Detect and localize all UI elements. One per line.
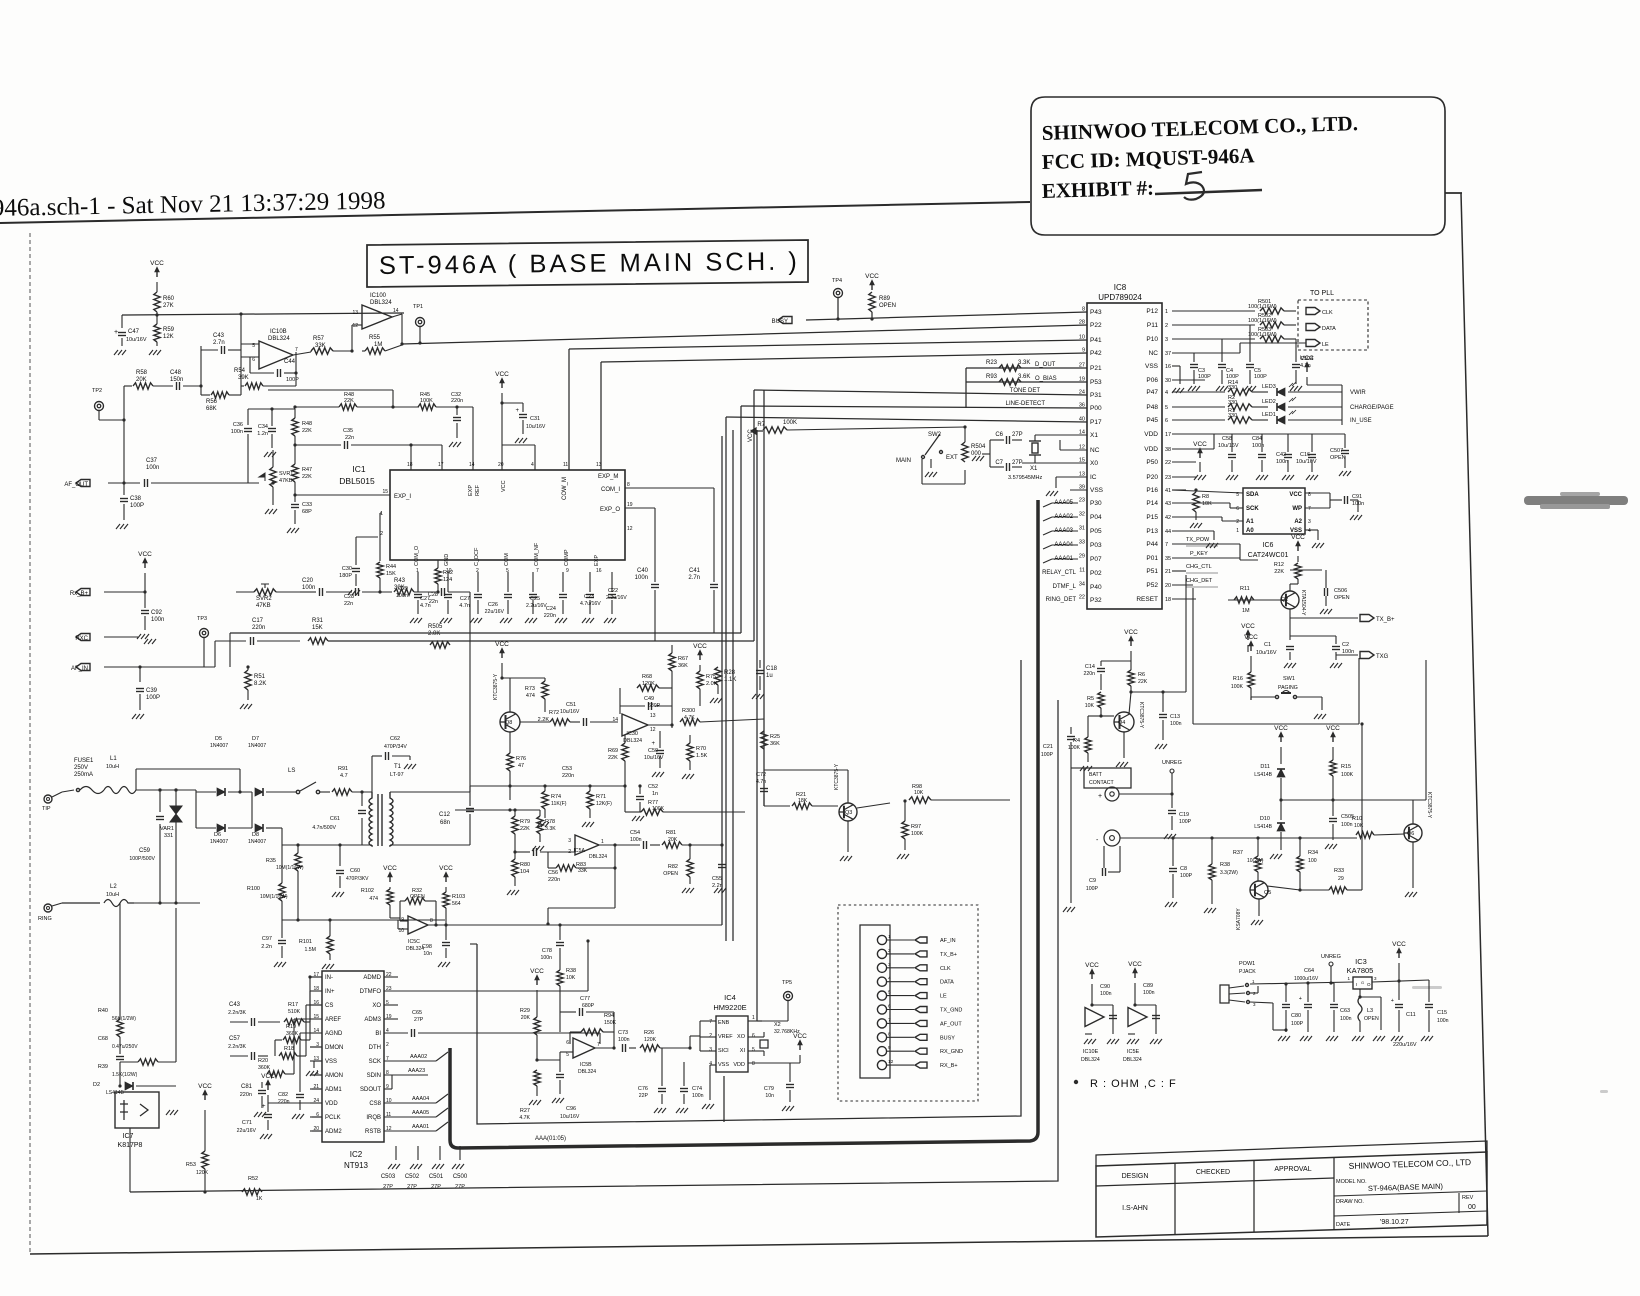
- svg-text:RX_B+: RX_B+: [940, 1063, 958, 1069]
- svg-text:C24: C24: [546, 606, 556, 612]
- svg-text:C64: C64: [1304, 968, 1314, 974]
- IC1 box: [390, 470, 625, 560]
- varistor VAR1 331: [170, 806, 182, 822]
- svg-text:C17: C17: [252, 618, 264, 624]
- svg-text:C56: C56: [548, 870, 558, 876]
- svg-text:OPEN: OPEN: [1364, 1016, 1379, 1022]
- svg-text:R26: R26: [644, 1030, 654, 1036]
- svg-text:R10: R10: [1352, 816, 1362, 822]
- svg-text:2.2u/16V: 2.2u/16V: [606, 595, 627, 601]
- svg-text:RESET: RESET: [1136, 596, 1158, 603]
- svg-text:VCC: VCC: [1300, 355, 1314, 362]
- svg-text:4.7n: 4.7n: [459, 603, 470, 609]
- svg-text:DATA: DATA: [1322, 326, 1336, 332]
- svg-text:+: +: [1391, 998, 1394, 1004]
- svg-text:2.2u/16V: 2.2u/16V: [526, 603, 547, 609]
- svg-text:1: 1: [1236, 528, 1239, 534]
- svg-text:10(2W): 10(2W): [1247, 858, 1264, 864]
- svg-text:P48: P48: [1146, 404, 1158, 411]
- svg-text:13: 13: [352, 310, 358, 316]
- svg-text:3.3K: 3.3K: [1018, 360, 1030, 366]
- wire net 925 to C78: [559, 925, 561, 940]
- svg-text:VCC: VCC: [1124, 629, 1138, 636]
- svg-text:680P: 680P: [582, 1003, 595, 1009]
- svg-text:A2: A2: [1294, 519, 1302, 525]
- svg-text:+: +: [515, 408, 519, 414]
- svg-text:C38: C38: [130, 496, 142, 502]
- svg-text:12K: 12K: [163, 334, 174, 340]
- wire C6/C7 left join: [989, 440, 991, 467]
- svg-text:15: 15: [1079, 458, 1085, 464]
- svg-text:COM_NF: COM_NF: [534, 542, 540, 566]
- svg-text:100n: 100n: [540, 955, 552, 961]
- svg-text:31: 31: [1079, 526, 1085, 532]
- wire Q3 emitter: [847, 821, 849, 852]
- test point TP3: [200, 629, 209, 638]
- connector arrow BUSY: [778, 317, 792, 324]
- capacitor C98 10n: [445, 925, 447, 940]
- svg-text:33K: 33K: [315, 343, 326, 349]
- svg-text:C44: C44: [284, 359, 296, 365]
- capacitor C44 100P: [249, 357, 251, 373]
- wire Q3 to R98: [857, 803, 890, 808]
- svg-text:Q6: Q6: [1407, 831, 1414, 837]
- wire Q4 emitter: [1123, 732, 1125, 758]
- svg-text:COM: COM: [504, 553, 510, 566]
- svg-text:4.7n: 4.7n: [756, 779, 766, 785]
- wire ENB left: [700, 1020, 716, 1022]
- svg-text:10n: 10n: [765, 1093, 774, 1099]
- svg-text:R78: R78: [545, 819, 555, 825]
- svg-text:FUSE1: FUSE1: [74, 758, 94, 764]
- svg-text:RELAY_CTL: RELAY_CTL: [1042, 570, 1077, 576]
- capacitor C79 10n: [789, 1063, 791, 1082]
- IC8 box: [1087, 303, 1162, 609]
- svg-text:68P: 68P: [302, 509, 312, 515]
- resistor R60 27K: [156, 282, 158, 292]
- svg-text:VCC: VCC: [865, 273, 879, 280]
- svg-text:100n: 100n: [231, 429, 243, 435]
- svg-text:R69: R69: [608, 748, 618, 754]
- scan noise streak right: [1524, 492, 1628, 509]
- svg-text:ST-946A ( BASE MAIN SCH. ): ST-946A ( BASE MAIN SCH. ): [379, 248, 800, 280]
- capacitor C92 100n: [144, 592, 146, 608]
- svg-text:R76: R76: [516, 756, 526, 762]
- svg-text:OPEN: OPEN: [879, 303, 896, 309]
- svg-text:3: 3: [568, 838, 571, 844]
- svg-text:5: 5: [888, 990, 891, 996]
- svg-text:2: 2: [888, 948, 891, 954]
- resistor R59 12K: [154, 324, 160, 342]
- svg-text:X1: X1: [1090, 432, 1098, 439]
- svg-text:NT913: NT913: [344, 1161, 369, 1170]
- svg-text:18: 18: [1165, 597, 1171, 603]
- svg-text:LE: LE: [940, 994, 947, 1000]
- wire Q2 emitter TX_B+: [1289, 609, 1291, 618]
- svg-text:R17: R17: [288, 1002, 298, 1008]
- resistor R57 33K: [311, 348, 333, 354]
- connector arrow TXG: [1360, 652, 1374, 659]
- svg-text:R59: R59: [163, 327, 175, 333]
- svg-text:C500: C500: [453, 1174, 468, 1180]
- resistor R503 100(1/16W): [1172, 338, 1255, 340]
- capacitor C49 680P: [648, 702, 650, 710]
- wire P14 to SCK: [1172, 502, 1230, 504]
- svg-text:P05: P05: [1090, 528, 1102, 535]
- wire pjack to rail: [1250, 982, 1353, 984]
- svg-text:250V: 250V: [74, 765, 88, 771]
- transformer T1 secondary: [390, 792, 393, 846]
- capacitor C501 27P: [439, 1146, 441, 1160]
- svg-text:330: 330: [1228, 413, 1237, 419]
- svg-text:100n: 100n: [1437, 1018, 1449, 1024]
- potentiometer SVR2 47KB: [254, 589, 276, 595]
- wire top rail y315: [122, 313, 404, 315]
- FCC exhibit handwritten 5: [1184, 172, 1204, 200]
- IC4 pin1 wire: [748, 1020, 762, 1022]
- wire DMON stub: [310, 1046, 322, 1048]
- svg-text:C27: C27: [420, 596, 430, 602]
- legend R:OHM C:F: [1074, 1080, 1078, 1084]
- svg-text:IC4: IC4: [724, 993, 736, 1002]
- svg-text:R18: R18: [284, 1046, 294, 1052]
- svg-text:EXP: EXP: [468, 485, 474, 496]
- svg-text:TP2: TP2: [92, 388, 102, 394]
- titleblock col2: [1253, 1160, 1255, 1232]
- svg-text:100n: 100n: [1170, 721, 1182, 727]
- resistor R48 22K top: [295, 406, 339, 408]
- wire ADM1 stub: [312, 1088, 322, 1090]
- svg-text:10: 10: [1079, 335, 1085, 341]
- svg-text:C63: C63: [1340, 1008, 1350, 1014]
- svg-text:R15: R15: [1341, 764, 1351, 770]
- connector arrow LE: [1306, 340, 1320, 347]
- svg-text:22K: 22K: [344, 398, 354, 404]
- svg-text:1.2n: 1.2n: [257, 431, 268, 437]
- bridge verticals: [195, 792, 197, 828]
- svg-text:IC5E: IC5E: [1127, 1049, 1140, 1055]
- svg-text:R56: R56: [206, 399, 218, 405]
- svg-text:22K: 22K: [302, 474, 312, 480]
- svg-text:R29: R29: [520, 1008, 530, 1014]
- svg-text:12: 12: [888, 1059, 894, 1065]
- wire crystal to X0 pin: [1034, 455, 1036, 463]
- svg-text:C81: C81: [241, 1084, 253, 1090]
- svg-text:220n: 220n: [1083, 671, 1095, 677]
- wire P06 stub: [1172, 379, 1205, 381]
- ground SW2: [925, 472, 929, 477]
- svg-text:P14: P14: [1146, 500, 1158, 507]
- svg-text:C41: C41: [689, 568, 701, 574]
- svg-text:R8: R8: [1202, 494, 1209, 500]
- svg-text:C49: C49: [644, 696, 654, 702]
- wire Q3 collector up: [847, 770, 849, 803]
- svg-text:RXC: RXC: [75, 636, 88, 642]
- svg-text:18K: 18K: [798, 798, 808, 804]
- svg-text:22K: 22K: [1138, 679, 1148, 685]
- svg-text:C47: C47: [128, 329, 140, 335]
- svg-text:SVR2: SVR2: [256, 596, 272, 602]
- connector pin 4 net DATA: [877, 977, 886, 986]
- svg-text:KTA1504-Y: KTA1504-Y: [1300, 590, 1306, 616]
- connector arrow DATA: [1306, 324, 1320, 331]
- svg-text:100: 100: [1308, 858, 1317, 864]
- svg-text:R42: R42: [443, 570, 453, 576]
- svg-text:23: 23: [1079, 498, 1085, 504]
- svg-text:100n: 100n: [1341, 822, 1353, 828]
- svg-text:AAA04: AAA04: [412, 1096, 429, 1102]
- svg-text:VCC: VCC: [495, 641, 509, 648]
- svg-text:IRQB: IRQB: [366, 1115, 381, 1121]
- svg-text:3.6K: 3.6K: [1018, 374, 1030, 380]
- svg-text:18: 18: [407, 462, 413, 468]
- svg-text:ADMD: ADMD: [363, 975, 381, 981]
- svg-text:R71: R71: [596, 794, 606, 800]
- connector pin 8 net BUSY: [877, 1033, 886, 1042]
- svg-text:21: 21: [1165, 569, 1171, 575]
- wire entry rail top: [136, 768, 240, 770]
- connector pin 3 net CLK: [877, 963, 886, 972]
- test point TP1: [416, 318, 425, 327]
- svg-text:MAIN: MAIN: [896, 458, 911, 464]
- svg-text:17: 17: [438, 462, 444, 468]
- svg-text:100n: 100n: [618, 1037, 630, 1043]
- svg-text:DBL324: DBL324: [578, 1069, 596, 1075]
- svg-text:C40: C40: [637, 568, 649, 574]
- resistor R21 18K: [792, 803, 812, 809]
- titleblock outer: [1096, 1152, 1487, 1237]
- transistor Q5 KSA708Y: [1250, 881, 1268, 899]
- svg-text:R58: R58: [136, 370, 148, 376]
- svg-text:VCC: VCC: [1128, 961, 1142, 968]
- svg-text:C43: C43: [213, 333, 225, 339]
- svg-text:R94: R94: [604, 1013, 614, 1019]
- svg-text:9: 9: [566, 568, 569, 574]
- wire IC5B plus input: [560, 1051, 573, 1053]
- op-amp IC5C DBL324: [408, 916, 428, 934]
- svg-text:OPEN: OPEN: [663, 871, 678, 877]
- svg-text:IC10B: IC10B: [270, 329, 287, 335]
- svg-text:VCC: VCC: [1291, 534, 1305, 541]
- IC7 opto box: [115, 1092, 159, 1128]
- svg-text:100K: 100K: [911, 831, 924, 837]
- svg-text:CONTACT: CONTACT: [1089, 780, 1115, 786]
- svg-text:EXP: EXP: [594, 555, 600, 566]
- svg-text:P21: P21: [1090, 365, 1102, 372]
- wire Q5 wires: [1258, 899, 1260, 916]
- resistor R67 36K: [669, 653, 675, 671]
- svg-text:100P: 100P: [1180, 873, 1193, 879]
- svg-text:VCC: VCC: [1392, 941, 1406, 948]
- IC4 vss gnd: [710, 1064, 716, 1066]
- svg-text:3.3(2W): 3.3(2W): [1220, 870, 1238, 876]
- svg-text:R48: R48: [302, 421, 312, 427]
- svg-text:OPEN: OPEN: [1330, 455, 1346, 461]
- resistor R7 100K: [763, 427, 787, 433]
- svg-text:R93: R93: [986, 374, 998, 380]
- svg-text:10u/16V: 10u/16V: [126, 337, 147, 343]
- sheet border bottom: [30, 1236, 1488, 1254]
- svg-text:100P: 100P: [1041, 752, 1054, 758]
- svg-text:1n: 1n: [652, 791, 658, 797]
- capacitor C31 10u/16V: [501, 393, 503, 470]
- resistor R97 100K: [902, 821, 908, 839]
- svg-text:4.7K: 4.7K: [519, 1115, 530, 1121]
- svg-text:C36: C36: [233, 422, 243, 428]
- svg-text:10K: 10K: [1202, 501, 1212, 507]
- svg-text:10M(1/16W): 10M(1/16W): [276, 865, 304, 871]
- svg-text:VREF: VREF: [718, 1034, 733, 1040]
- op-amp IC100 DBL324: [362, 305, 392, 329]
- svg-text:2.2n/3K: 2.2n/3K: [228, 1044, 246, 1050]
- wire COW_M from IC1 pin11: [569, 340, 1087, 349]
- svg-text:COM_O: COM_O: [414, 545, 420, 566]
- svg-text:C55: C55: [712, 876, 722, 882]
- svg-text:250mA: 250mA: [74, 772, 93, 778]
- op-amp IC30 DBL324: [622, 714, 648, 736]
- wire R89 to busy line: [871, 312, 873, 319]
- svg-text:C62: C62: [390, 736, 400, 742]
- svg-text:COW_M: COW_M: [562, 477, 568, 500]
- svg-text:27P: 27P: [1012, 460, 1023, 466]
- svg-text:SDA: SDA: [1246, 492, 1259, 498]
- wire D-R15 junction rail: [1281, 799, 1426, 801]
- svg-text:P30: P30: [1090, 500, 1102, 507]
- svg-text:2: 2: [386, 1042, 389, 1048]
- capacitor C4 100P: [1221, 339, 1223, 362]
- svg-text:R39: R39: [98, 1064, 108, 1070]
- svg-text:100P: 100P: [1254, 374, 1267, 380]
- svg-text:IC5C: IC5C: [408, 939, 420, 945]
- svg-text:C53: C53: [562, 766, 572, 772]
- svg-text:100K: 100K: [420, 398, 433, 404]
- svg-text:TIP: TIP: [42, 806, 51, 812]
- svg-text:20: 20: [1165, 583, 1171, 589]
- svg-text:5: 5: [752, 1047, 755, 1053]
- svg-text:C39: C39: [146, 688, 158, 694]
- svg-text:C60: C60: [350, 868, 360, 874]
- wire C13 node up: [1185, 575, 1187, 692]
- capacitor C47 10u/16V: [121, 315, 123, 328]
- svg-text:C15: C15: [1437, 1010, 1447, 1016]
- svg-text:2: 2: [380, 531, 383, 537]
- wire Q8 emitter rail: [509, 786, 511, 800]
- capacitor C63 100n: [1331, 982, 1334, 984]
- svg-text:10M(1/16W): 10M(1/16W): [260, 894, 288, 900]
- op-amp IC5B DBL324: [573, 1038, 595, 1058]
- svg-text:19: 19: [1079, 377, 1085, 383]
- svg-text:14: 14: [469, 462, 475, 468]
- svg-text:DBL324: DBL324: [623, 738, 642, 744]
- resistor R76 47: [507, 753, 513, 771]
- svg-text:DBL324: DBL324: [370, 300, 392, 306]
- wire P15 to A1: [1172, 516, 1222, 518]
- wire P10 to LE: [1172, 352, 1240, 354]
- svg-text:10K: 10K: [1085, 703, 1095, 709]
- capacitor C506 OPEN: [1290, 569, 1322, 571]
- svg-text:11K(F): 11K(F): [551, 801, 567, 807]
- svg-text:180P: 180P: [339, 573, 352, 579]
- wire P44 TX_POW: [1172, 543, 1240, 545]
- wire Q4 collector: [1129, 692, 1131, 714]
- svg-text:100n: 100n: [630, 837, 642, 843]
- wire IC100 pin13: [241, 312, 362, 314]
- svg-text:R74: R74: [551, 794, 561, 800]
- svg-text:C52: C52: [648, 784, 658, 790]
- svg-text:IC100: IC100: [370, 293, 387, 299]
- svg-text:5: 5: [566, 1052, 569, 1058]
- svg-text:REV: REV: [1462, 1195, 1474, 1201]
- svg-text:VSS: VSS: [718, 1062, 729, 1068]
- svg-text:27P: 27P: [431, 1184, 441, 1190]
- svg-text:C506: C506: [1334, 588, 1347, 594]
- svg-text:R53: R53: [186, 1162, 196, 1168]
- svg-text:DATA: DATA: [940, 980, 954, 986]
- wire IC3 out: [1372, 980, 1429, 982]
- svg-text:00: 00: [1468, 1204, 1476, 1211]
- titleblock col1: [1174, 1163, 1176, 1235]
- svg-text:IC1: IC1: [352, 464, 366, 474]
- svg-text:44: 44: [1165, 529, 1171, 535]
- svg-text:470P/3KV: 470P/3KV: [346, 876, 369, 882]
- svg-text:DTMF_L: DTMF_L: [1053, 584, 1077, 590]
- IC4 box: [716, 1016, 748, 1072]
- svg-text:C79: C79: [764, 1086, 774, 1092]
- svg-text:R100: R100: [247, 886, 260, 892]
- svg-text:2.7n: 2.7n: [688, 575, 700, 581]
- capacitor C8 100P: [1172, 838, 1174, 866]
- wire BI vertical up: [599, 1033, 601, 1044]
- svg-text:C68: C68: [98, 1036, 108, 1042]
- wire R29 node: [537, 1059, 560, 1061]
- wire ADM3 stub: [384, 1018, 398, 1020]
- svg-text:IC5B: IC5B: [580, 1062, 592, 1068]
- wire VDD38 rail: [1172, 448, 1214, 450]
- wire IC1 pin2 down: [355, 537, 357, 565]
- svg-text:220n: 220n: [451, 398, 463, 404]
- svg-text:P41: P41: [1090, 337, 1102, 344]
- svg-text:P07: P07: [1090, 556, 1102, 563]
- wire left node down: [123, 386, 125, 406]
- titleblock col3: [1333, 1158, 1335, 1230]
- svg-text:100K: 100K: [652, 806, 665, 812]
- svg-text:100P: 100P: [146, 695, 160, 701]
- svg-text:R54: R54: [234, 368, 246, 374]
- svg-text:11: 11: [1079, 568, 1085, 574]
- svg-text:VSS: VSS: [1145, 363, 1159, 370]
- svg-text:+: +: [1299, 996, 1302, 1002]
- wire SW2 loop: [921, 459, 923, 484]
- connector arrow CLK: [1306, 308, 1320, 315]
- svg-text:330: 330: [1228, 385, 1237, 391]
- svg-text:100n: 100n: [1143, 990, 1155, 996]
- svg-text:VCC: VCC: [261, 1073, 275, 1080]
- svg-text:VCC: VCC: [150, 260, 164, 267]
- svg-text:P03: P03: [1090, 542, 1102, 549]
- svg-text:RING: RING: [38, 916, 52, 922]
- capacitor C2 100n: [1335, 640, 1337, 644]
- inner loop wire: [477, 660, 1021, 1124]
- capacitor C9 100P: [1103, 846, 1105, 868]
- svg-text:AF_OUT: AF_OUT: [64, 482, 88, 488]
- svg-text:1: 1: [1165, 309, 1168, 315]
- svg-text:12: 12: [650, 727, 656, 733]
- svg-text:C7: C7: [995, 460, 1003, 466]
- svg-text:100n: 100n: [396, 593, 408, 599]
- resistor R77 100K: [641, 809, 663, 815]
- svg-text:AF_IN: AF_IN: [71, 666, 88, 672]
- svg-text:510K: 510K: [288, 1009, 301, 1015]
